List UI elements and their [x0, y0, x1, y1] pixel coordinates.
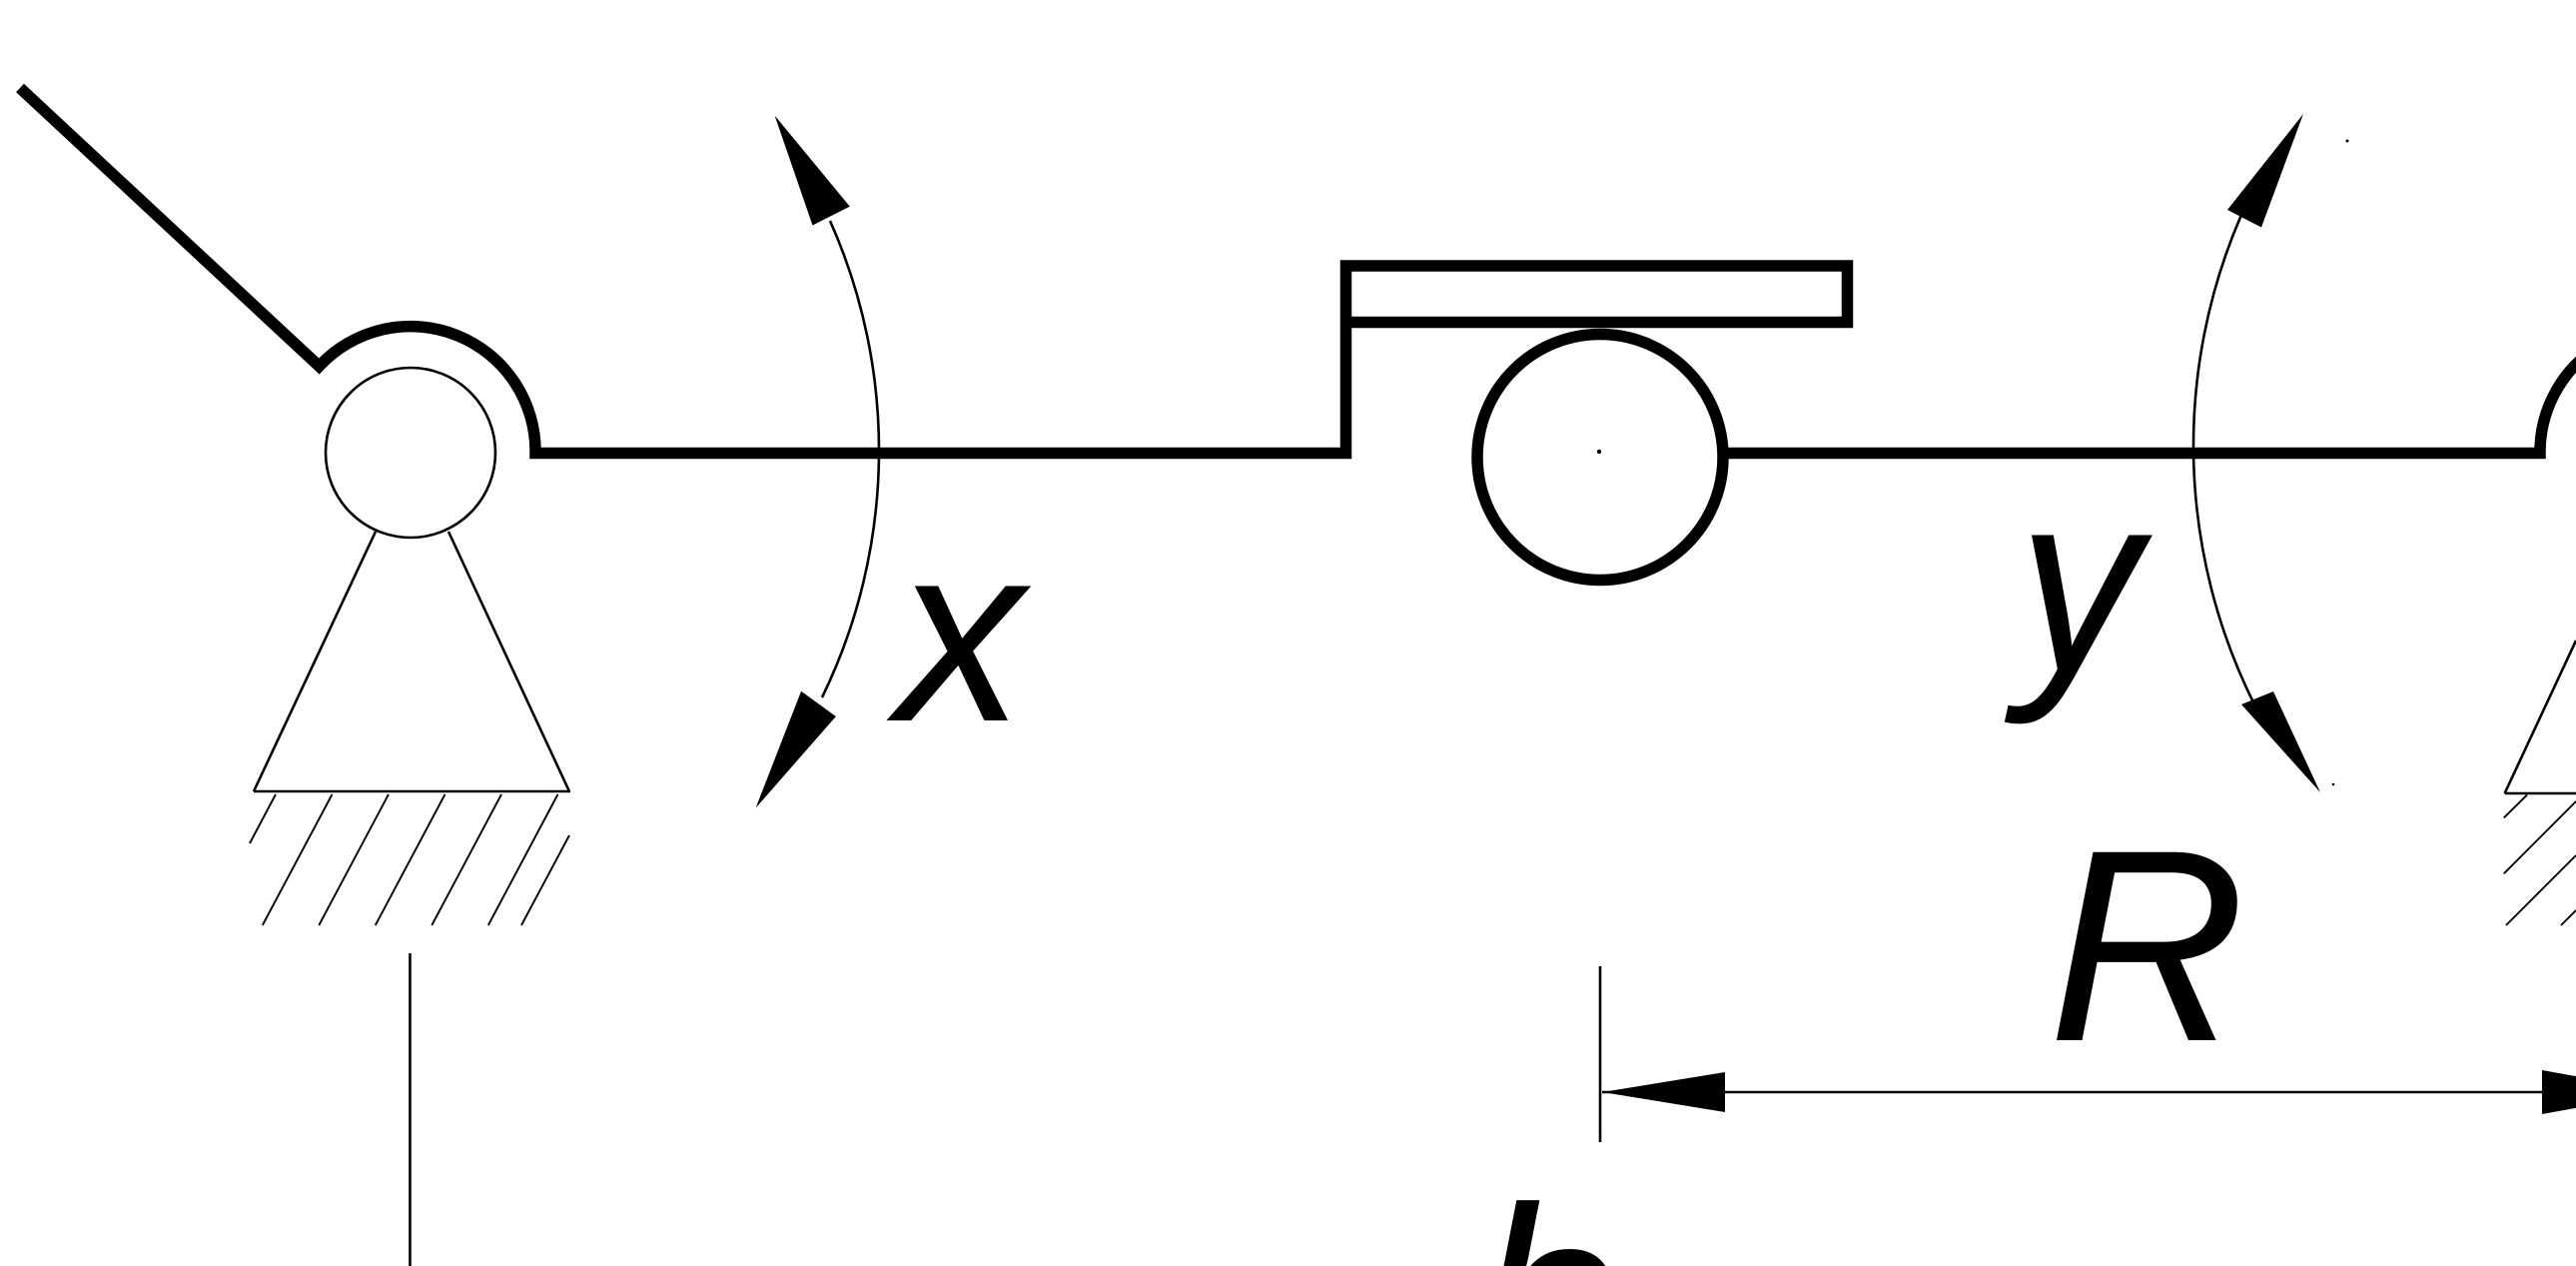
svg-text:x: x	[886, 491, 1032, 774]
svg-text:b: b	[1475, 1153, 1621, 1266]
svg-text:R: R	[2049, 792, 2246, 1098]
svg-text:y: y	[2003, 440, 2154, 726]
